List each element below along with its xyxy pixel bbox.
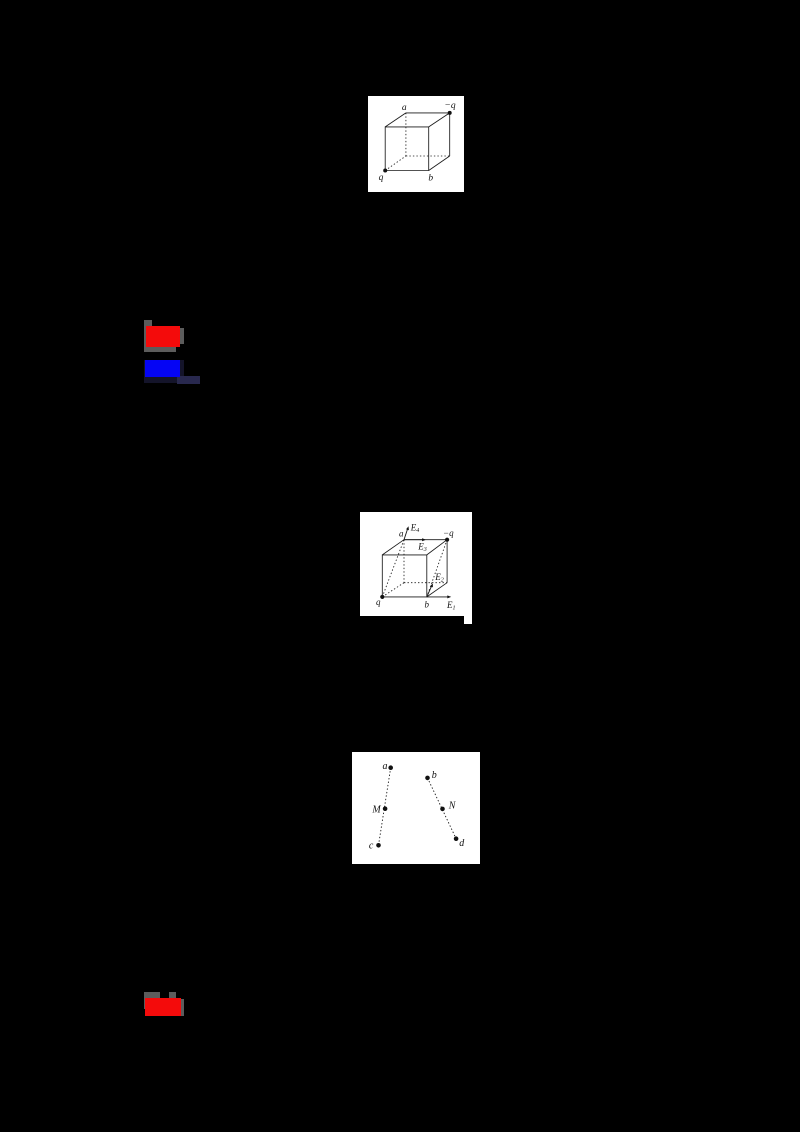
svg-text:M: M	[371, 804, 381, 815]
figure 1: cube with charges q and -q	[368, 96, 464, 192]
node q (charge dot)	[383, 168, 387, 172]
node a	[388, 765, 393, 770]
wire hidden bottom-left edge (dashed)	[385, 156, 406, 170]
node -q (charge dot)	[448, 111, 452, 115]
wire hidden back-left edge (dashed)	[405, 113, 407, 156]
figure 3: points a,M,c and b,N,d	[352, 752, 480, 864]
wire hidden bottom-left edge (dashed)	[382, 582, 404, 596]
svg-text:a: a	[382, 761, 387, 772]
wire top-right edge	[426, 539, 446, 554]
svg-text:b: b	[424, 599, 429, 609]
svg-text:q: q	[376, 597, 381, 607]
figure 2: cube with field vectors E1..E4	[360, 512, 472, 616]
vector E2 at b	[426, 586, 431, 597]
wire front face	[382, 554, 426, 596]
white tab below figure 2 bottom-right	[464, 616, 472, 624]
wire diagonal -q to b (dashed)	[426, 539, 446, 596]
wire front face	[385, 127, 428, 171]
node b	[425, 775, 430, 780]
vector E3 at a	[404, 538, 423, 540]
analysis marker (blue) on navy highlight	[144, 360, 184, 383]
svg-text:a: a	[399, 528, 404, 538]
svg-text:−q: −q	[444, 101, 455, 111]
wire line b-N-d (dashed)	[427, 778, 456, 839]
svg-text:b: b	[432, 770, 437, 781]
wire line a-M-c (dashed)	[378, 767, 390, 845]
wire back-right edge	[446, 539, 448, 582]
svg-text:q: q	[379, 173, 384, 183]
wire back-right edge	[449, 113, 451, 156]
wire bottom-right edge	[426, 582, 446, 596]
wire hidden back-bottom edge (dashed)	[406, 155, 450, 157]
node d	[454, 836, 459, 841]
wire back-top edge	[406, 112, 450, 114]
wire hidden back-bottom edge (dashed)	[404, 581, 447, 583]
wire back-top edge	[404, 538, 447, 540]
vector E1 at b	[426, 595, 448, 597]
wire top-left edge	[382, 539, 404, 554]
wire top-right edge	[429, 113, 450, 127]
node c	[376, 843, 381, 848]
node q (charge dot)	[380, 594, 384, 598]
svg-text:a: a	[402, 103, 407, 113]
wire diagonal q to a (dashed)	[382, 539, 404, 596]
node M	[383, 806, 388, 811]
node -q (charge dot)	[445, 537, 449, 541]
wire hidden back-left edge (dashed)	[403, 539, 405, 582]
node N	[440, 806, 445, 811]
vector E4 at a	[404, 528, 408, 539]
wire bottom-right edge	[429, 156, 450, 170]
answer marker (red) on gray highlight	[144, 320, 152, 352]
svg-text:−q: −q	[443, 527, 454, 537]
svg-text:N: N	[448, 800, 457, 811]
wire top-left edge	[385, 113, 406, 127]
svg-text:c: c	[369, 840, 374, 851]
svg-text:b: b	[428, 173, 433, 183]
answer marker 2 (red) on gray highlight	[144, 992, 160, 999]
